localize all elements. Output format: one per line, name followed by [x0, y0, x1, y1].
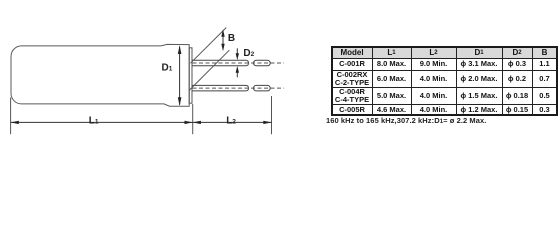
dimension D2 lower arrow — [236, 72, 238, 77]
svg-text:L2: L2 — [226, 115, 236, 126]
row C-002RX / C-2-TYPE — [332, 70, 372, 87]
B reference diagonal from top lead — [191, 28, 227, 64]
dimensions table — [0, 160, 560, 162]
top lead centerline — [193, 62, 285, 64]
bottom lead — [192, 85, 249, 91]
top lead break segment — [254, 60, 271, 66]
can end seal — [189, 48, 192, 103]
note — [326, 116, 486, 125]
dimension D2 upper arrow — [236, 48, 238, 54]
dimension D1 arrow — [179, 47, 181, 105]
bottom lead break segment — [254, 85, 271, 91]
inner horizontal gridlines — [332, 58, 556, 59]
top lead — [192, 60, 249, 66]
L1/L2 shared extension line — [192, 104, 194, 134]
inner vertical gridlines — [372, 47, 373, 115]
crystal can body — [11, 44, 189, 106]
row C-004R / C-4-TYPE — [332, 87, 372, 104]
row C-005R — [332, 104, 372, 115]
header cells — [332, 47, 372, 58]
svg-text:L1: L1 — [89, 115, 99, 126]
svg-text:B: B — [228, 33, 235, 44]
bottom lead centerline — [193, 87, 285, 89]
svg-text:D1: D1 — [162, 63, 173, 74]
header row background — [332, 47, 556, 58]
row C-001R — [332, 58, 372, 70]
dimension L1 line — [11, 121, 193, 123]
L1 left extension line — [10, 98, 12, 135]
L2 right extension line — [271, 96, 273, 134]
svg-text:D2: D2 — [243, 48, 254, 59]
B reference diagonal from bottom lead — [189, 50, 229, 90]
dimension L2 line — [193, 121, 272, 123]
dimension B arrow — [222, 31, 224, 50]
table outer border — [331, 46, 558, 116]
